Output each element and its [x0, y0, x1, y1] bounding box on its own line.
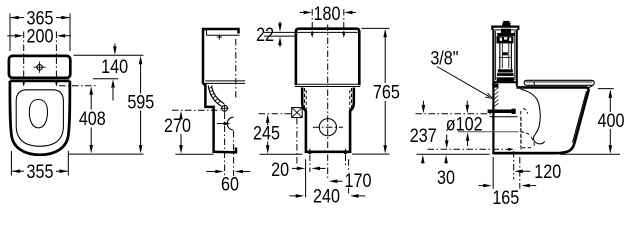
- view4: hidden trapway lines: [521, 108, 535, 148]
- view4: bowl rim top edge: [517, 86, 587, 89]
- view3: cistern bottom seam lines: [295, 84, 360, 86]
- svg-text:180: 180: [314, 3, 341, 25]
- view4: outlet horizontal axis centreline: [428, 148, 514, 151]
- svg-text:595: 595: [127, 91, 154, 113]
- dimension 270 line: [179, 111, 183, 154]
- view3: inlet vertical centreline: [296, 118, 298, 166]
- svg-text:400: 400: [598, 110, 625, 132]
- view4: outlet vertical axis centreline: [513, 151, 515, 180]
- view3: vertical centreline: [327, 25, 329, 181]
- view1: bowl water hole: [29, 100, 47, 128]
- view1: bowl inner rim: [16, 90, 63, 146]
- view2: inlet centreline horizontal: [172, 109, 221, 111]
- view4: floor extension line right: [560, 153, 620, 155]
- view2: inlet valve circle: [221, 104, 229, 112]
- dimension 595 text: [127, 91, 154, 113]
- dimension 30 lower arrow: [444, 155, 448, 164]
- dimension 165 arrows: [479, 184, 537, 188]
- dimension 140 bottom extension line: [93, 78, 118, 80]
- view4: bowl inner surface line: [573, 91, 587, 143]
- view4: floor extension line left: [417, 153, 490, 155]
- view2: bowl rear profile outline: [203, 84, 236, 152]
- dimension 30 text: [437, 167, 455, 189]
- dimension 180 text: [314, 3, 341, 25]
- view2: outlet flow arrow: [217, 122, 231, 125]
- view3: left base extension line: [305, 159, 307, 197]
- view4: base bottom edge: [493, 152, 556, 155]
- view4: below-floor extension centreline: [519, 157, 521, 189]
- dimension 20 arrows: [292, 167, 326, 171]
- dimension 165 text: [492, 187, 519, 209]
- view3: cistern lid seam line: [298, 31, 358, 33]
- dimension 180 arrows: [300, 11, 357, 15]
- dimension 400 line: [609, 89, 613, 153]
- dimension 365 line and arrows: [10, 16, 69, 20]
- dimension 120 arrow: [514, 170, 530, 174]
- view4: fill and flush valve mechanism: [497, 29, 515, 82]
- view4: bowl outer profile: [493, 87, 589, 153]
- view2: outlet trap half circle: [227, 117, 233, 130]
- view3: floor fixing arrows in base: [308, 148, 347, 154]
- dimension 595 bottom extension line: [69, 153, 144, 155]
- svg-text:200: 200: [27, 25, 54, 47]
- view3: trap circle: [319, 119, 336, 136]
- dimension 200 text: [27, 25, 54, 47]
- dimension 245 bottom extension line: [260, 153, 303, 155]
- dimension 22 extension lines: [264, 32, 298, 36]
- dimension 400 text: [598, 110, 625, 132]
- dimension 140 top extension line: [74, 54, 144, 56]
- dimension 237 upper arrow: [422, 101, 426, 114]
- svg-text:355: 355: [27, 161, 54, 183]
- dimension 170 text: [343, 170, 372, 192]
- view3: hidden shoulder lines left: [305, 88, 307, 110]
- dimension 355 text: [27, 161, 54, 183]
- view3: hidden shoulder lines right: [350, 88, 352, 110]
- svg-text:170: 170: [345, 170, 372, 192]
- svg-text:120: 120: [534, 161, 561, 183]
- dimension 200 centreline left with arrow: [22, 32, 25, 87]
- dimension 180 extension centreline right: [342, 9, 345, 38]
- view4: cistern to bowl joint block: [492, 84, 498, 88]
- view4: water supply pipe: [488, 109, 518, 117]
- view4: push button: [502, 21, 510, 26]
- view4: water level line: [497, 32, 515, 34]
- dimension 30 upper arrow: [445, 135, 449, 149]
- svg-text:140: 140: [101, 56, 128, 78]
- view2: outlet vertical centreline: [233, 131, 235, 176]
- dimension 365 extension line left: [9, 14, 11, 52]
- dimension 140 text: [101, 56, 128, 78]
- dimension 20 text: [271, 159, 289, 181]
- dimension 765 text: [373, 81, 400, 103]
- dimension 237 text: [410, 125, 437, 147]
- view4: bowl cavity section curve: [521, 89, 545, 144]
- view2: cistern profile outline: [203, 29, 240, 84]
- view3: bowl outline (front): [302, 88, 354, 152]
- dimension 60 text: [221, 173, 239, 195]
- dimension 765 bottom extension line: [352, 153, 390, 155]
- dimension 408 text: [79, 108, 106, 130]
- dimension 400 top extension line: [598, 88, 614, 90]
- dimension 120 text: [534, 161, 561, 183]
- dimension 765 top extension line: [362, 27, 390, 29]
- dimension 140 lower arrow: [111, 79, 115, 100]
- dimension 765 line: [383, 29, 387, 154]
- label 3/8 inch text: [430, 47, 458, 69]
- dimension 408 top extension centreline: [59, 85, 96, 87]
- svg-text:30: 30: [437, 167, 455, 189]
- view1: cistern tank outline (top view): [9, 56, 70, 78]
- view2: flush pipe elbow: [208, 86, 224, 107]
- view4: cistern lid: [492, 27, 518, 30]
- dimension diameter-102 upper arrow: [466, 101, 470, 114]
- svg-text:20: 20: [271, 159, 289, 181]
- view2: rear fixing centreline: [235, 39, 237, 98]
- svg-text:765: 765: [373, 81, 400, 103]
- dimension 270 text: [164, 115, 191, 137]
- dimension 355 extension line left: [10, 151, 12, 176]
- view4: seat and lid: [524, 80, 594, 89]
- view3: cistern outline (front): [296, 29, 359, 85]
- dimension 200 outside arrows: [7, 34, 71, 38]
- dimension 240 text: [312, 185, 341, 207]
- view2: fixing hole cross mark: [217, 35, 222, 40]
- svg-text:60: 60: [221, 173, 239, 195]
- view3: trap horizontal centreline: [313, 126, 343, 128]
- view4: leader line 3/8 inch: [437, 67, 492, 99]
- dimension 22 arrows: [278, 22, 282, 48]
- view2: inlet vertical centreline: [224, 113, 226, 177]
- view4: inlet axis centreline: [416, 113, 493, 115]
- dimension 355 line and arrows: [12, 169, 68, 173]
- view1: flush button symbol with centre cross: [34, 62, 46, 73]
- dimension 140 upper arrow: [113, 44, 117, 55]
- dimension 245 top extension centreline: [259, 113, 292, 115]
- svg-text:3/8": 3/8": [430, 47, 458, 69]
- svg-text:165: 165: [492, 187, 519, 209]
- svg-text:ø102: ø102: [446, 113, 483, 135]
- dimension diameter-102 text: [446, 113, 483, 135]
- svg-text:245: 245: [253, 122, 280, 144]
- dimension diameter-102 lower arrow: [466, 132, 470, 146]
- dimension 170 arrow: [329, 179, 343, 183]
- view4: outlet pipe lower line: [458, 131, 519, 133]
- view3: right fixing centreline below base: [345, 155, 347, 166]
- view3: water inlet boss hatched: [292, 108, 303, 118]
- svg-text:408: 408: [79, 108, 106, 130]
- dimension 180 extension centreline left: [311, 9, 314, 38]
- dimension 200 centreline right with arrow: [55, 32, 58, 87]
- svg-text:270: 270: [164, 115, 191, 137]
- view3: left fixing centreline below base: [309, 155, 311, 173]
- svg-text:22: 22: [256, 24, 274, 46]
- dimension 595 line: [139, 56, 143, 154]
- view4: cistern left wall: [493, 30, 495, 82]
- dimension 237 lower arrow: [421, 155, 425, 164]
- view2: floor extension line: [175, 153, 213, 155]
- view3: right base extension centreline: [348, 159, 350, 195]
- view2: cistern bottom seam lines: [205, 81, 245, 84]
- dimension 245 text: [253, 122, 280, 144]
- dimension 408 line: [89, 86, 93, 153]
- dimension 22 text: [256, 24, 274, 46]
- view4: section hatching below cistern: [492, 88, 498, 108]
- view4: cistern bottom: [492, 81, 518, 83]
- view4: trap hidden back edge: [520, 118, 522, 152]
- dimension 365 extension line right: [69, 14, 71, 52]
- dimension 240 arrows: [290, 194, 366, 198]
- dimension 355 extension line right: [67, 151, 69, 176]
- view4: wall plane extension line: [492, 157, 494, 189]
- dimension 60 arrows: [206, 170, 250, 174]
- dimension 365 text: [27, 7, 54, 29]
- dimension 245 line: [266, 114, 270, 153]
- view4: rear wall of bowl: [492, 83, 494, 154]
- svg-text:240: 240: [313, 185, 340, 207]
- view4: cistern right wall: [515, 30, 517, 86]
- view1: bowl outer outline: [10, 81, 70, 155]
- view4: outlet pipe hidden continuation: [521, 132, 532, 137]
- svg-text:237: 237: [410, 125, 437, 147]
